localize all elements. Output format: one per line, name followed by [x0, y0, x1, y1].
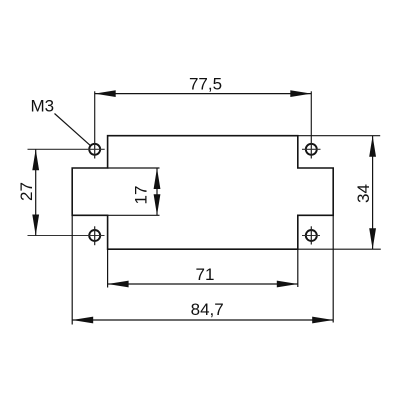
- centerline BL horizontal (merged with 27 bottom extension): [28, 235, 105, 237]
- hole TR: [306, 144, 317, 155]
- dimension 34 bottom extension: [298, 248, 381, 250]
- dimension 34 top extension: [298, 135, 380, 137]
- dimension 84,7 right extension: [332, 215, 334, 322]
- dimension 84,7 line: [72, 319, 333, 321]
- svg-text:17: 17: [132, 186, 151, 205]
- svg-text:M3: M3: [31, 97, 55, 116]
- svg-text:84,7: 84,7: [191, 300, 224, 319]
- centerline BL vertical: [94, 226, 96, 245]
- dimension 71 line: [108, 283, 298, 285]
- centerline BR vertical: [310, 226, 312, 244]
- dimension 77,5 right arrow: [290, 90, 311, 97]
- centerline TL horizontal (merged with 27 top extension): [28, 148, 105, 150]
- centerline BR horizontal: [302, 235, 320, 237]
- dimension 77,5 left arrow: [95, 90, 116, 97]
- dimension 17 extension bottom (into rectangle): [108, 214, 160, 216]
- svg-text:34: 34: [354, 184, 373, 203]
- dimension 27 line: [35, 149, 37, 235]
- dimension 71 right extension: [297, 249, 299, 287]
- dimension 17 extension top (into rectangle): [108, 167, 160, 169]
- dimension 84,7 right arrow: [312, 317, 333, 324]
- dimension 71 right arrow: [277, 281, 298, 288]
- dimension 34 line: [372, 136, 374, 250]
- dimension 84,7 left arrow: [72, 317, 93, 324]
- centerline TR horizontal: [302, 148, 321, 150]
- dimension 27 top arrow: [32, 149, 39, 170]
- dimension 34 bottom arrow: [369, 228, 376, 249]
- M3 leader line: [55, 114, 91, 146]
- dimension 17 line: [156, 168, 158, 215]
- hole TL (M3): [89, 144, 100, 155]
- svg-text:77,5: 77,5: [189, 75, 222, 94]
- centerline TL vertical (merged with 77,5 left extension): [94, 91, 96, 158]
- dimension 71 left arrow: [108, 281, 129, 288]
- dimension 17 top arrow: [154, 168, 161, 189]
- panel cutout outline: [72, 136, 333, 250]
- dimension 27 bottom arrow: [32, 215, 39, 236]
- hole BR: [306, 230, 317, 241]
- dimension 17 bottom arrow: [154, 194, 161, 215]
- dimension 77,5 line: [95, 93, 312, 95]
- svg-text:27: 27: [17, 182, 36, 201]
- dimension 71 left extension: [107, 249, 109, 287]
- hole BL: [89, 230, 100, 241]
- dimension 84,7 left extension: [71, 215, 73, 324]
- svg-text:71: 71: [196, 265, 215, 284]
- centerline TR vertical (merged with 77,5 right extension): [310, 91, 312, 158]
- dimension 34 top arrow: [369, 136, 376, 157]
